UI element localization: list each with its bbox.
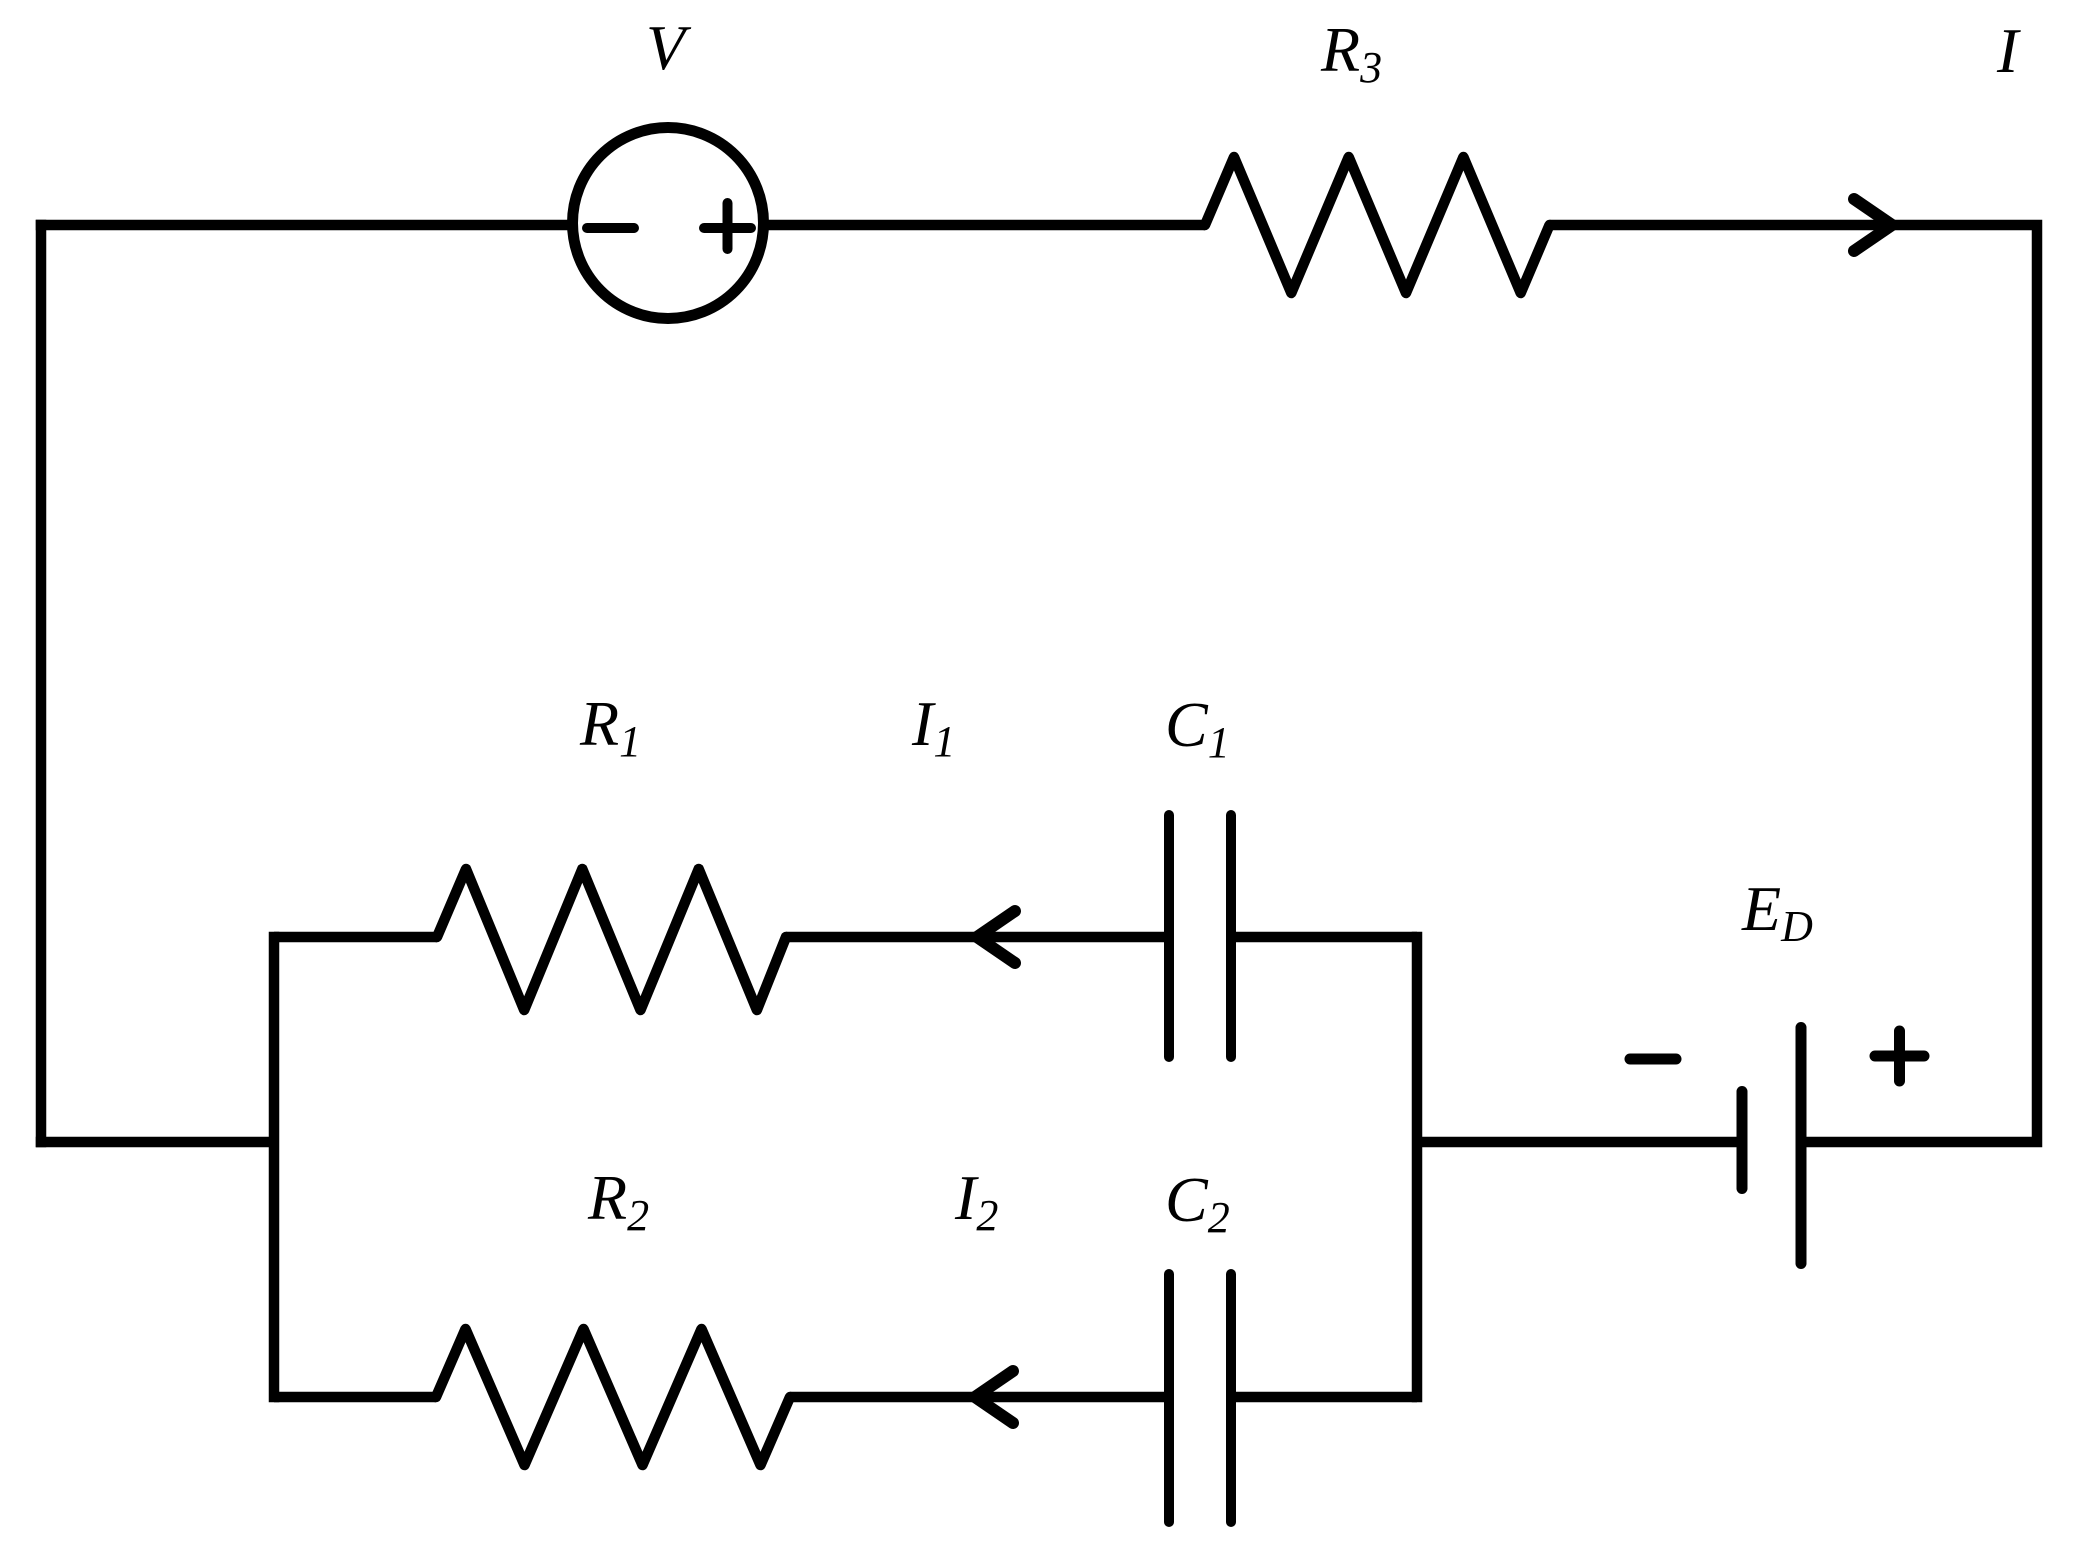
voltage source V bbox=[573, 128, 764, 319]
svg-text:I2: I2 bbox=[954, 1162, 998, 1240]
svg-text:R2: R2 bbox=[587, 1162, 649, 1240]
wire: left junction to R1 bbox=[274, 932, 437, 943]
resistor R1 bbox=[437, 869, 786, 1010]
wire: bottom-left horizontal to left junction bbox=[36, 1137, 274, 1148]
wire: top-left horizontal from left corner to voltage source bbox=[36, 220, 576, 231]
current arrow I1 bbox=[977, 911, 1015, 963]
node: left junction vertical bbox=[269, 932, 280, 1403]
wire: left vertical side bbox=[36, 220, 47, 1148]
svg-text:R1: R1 bbox=[579, 688, 641, 766]
wire: R2 to C2 left plate (current I2 path) bbox=[790, 1392, 1166, 1403]
svg-text:V: V bbox=[646, 12, 692, 83]
wire: R3 to top-right corner, right side down, and to battery positive bbox=[1550, 225, 2038, 1142]
battery minus sign bbox=[1630, 1054, 1676, 1065]
svg-text:C2: C2 bbox=[1165, 1164, 1230, 1242]
wire: R1 to C1 left plate (current I1 path) bbox=[786, 932, 1166, 943]
current arrow I2 bbox=[975, 1371, 1013, 1423]
svg-text:I: I bbox=[1996, 15, 2021, 86]
node: right junction vertical bbox=[1412, 932, 1423, 1403]
resistor R2 bbox=[436, 1329, 790, 1465]
resistor R3 bbox=[1205, 157, 1550, 293]
wire: C1 right plate to right junction bbox=[1234, 932, 1417, 943]
svg-text:C1: C1 bbox=[1165, 689, 1230, 767]
wire: C2 right plate to right junction bbox=[1234, 1392, 1417, 1403]
svg-text:I1: I1 bbox=[911, 688, 955, 766]
capacitor C2 bbox=[1169, 1274, 1231, 1522]
svg-text:R3: R3 bbox=[1320, 14, 1382, 92]
battery plus sign bbox=[1875, 1031, 1924, 1081]
wire: voltage source to R3 bbox=[761, 220, 1205, 231]
wire: left junction to R2 bbox=[274, 1392, 436, 1403]
current arrow I on top wire bbox=[1854, 199, 1892, 251]
wire: right junction to battery negative bbox=[1417, 1137, 1742, 1148]
capacitor C1 bbox=[1169, 815, 1231, 1057]
battery E_D bbox=[1742, 1028, 1801, 1264]
svg-text:ED: ED bbox=[1741, 873, 1813, 951]
